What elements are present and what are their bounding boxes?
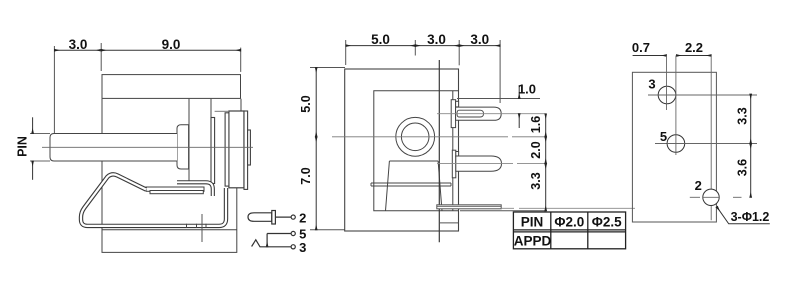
side view housing band	[102, 75, 241, 99]
side view flange plate C	[244, 111, 248, 189]
side view housing walls	[102, 99, 241, 253]
front view pin 5 centerline	[502, 207, 635, 209]
side view dimension 3.0	[54, 46, 101, 133]
svg-text:2: 2	[299, 210, 306, 225]
side view spring wire	[81, 174, 226, 225]
svg-text:5.0: 5.0	[371, 32, 390, 47]
svg-text:3.6: 3.6	[736, 159, 750, 176]
side view hidden top line	[215, 110, 229, 112]
footprint right dimension 3.6	[750, 144, 752, 198]
front view horizontal centerline	[332, 136, 546, 138]
front view left dimension 5.0	[310, 68, 345, 137]
front view dimension 3.3	[460, 164, 546, 211]
front view pin 5 bottom lug	[437, 205, 501, 209]
svg-text:1.6: 1.6	[529, 116, 543, 133]
svg-text:7.0: 7.0	[299, 167, 313, 184]
footprint top dimension 2.2	[676, 55, 711, 57]
front view pin 2 center pin	[452, 150, 501, 178]
svg-text:3.3: 3.3	[529, 172, 543, 189]
front view left dimension 7.0	[310, 137, 345, 230]
terminal symbol pin 5	[267, 231, 295, 246]
side view flange plate A	[211, 118, 215, 184]
side view center pin	[50, 134, 177, 162]
footprint callout 3-phi1.2	[717, 207, 770, 224]
front view bottom step	[440, 222, 459, 224]
front view seam band	[371, 183, 451, 186]
svg-text:2: 2	[695, 178, 702, 193]
front view dimension 2.0	[545, 137, 547, 164]
front view dimension 1.0	[457, 85, 540, 128]
svg-text:3.0: 3.0	[427, 32, 446, 47]
front view trapezoid base	[386, 161, 443, 211]
front view pin 3 centerline	[437, 113, 546, 115]
terminal symbol pin 2	[248, 211, 295, 225]
front view face rect	[345, 69, 459, 211]
footprint outline	[632, 72, 716, 222]
terminal symbol pin 3	[252, 240, 296, 249]
svg-text:9.0: 9.0	[162, 37, 181, 52]
parts table	[513, 212, 625, 249]
svg-text:3.3: 3.3	[736, 107, 750, 124]
svg-text:3: 3	[299, 240, 306, 255]
front view top dimension 3.0 a	[415, 40, 459, 65]
footprint right dimension 3.3	[750, 94, 752, 144]
side view pin thickness arrows	[30, 117, 50, 180]
side view pin axis centerline	[42, 146, 253, 148]
side view flange plate B	[225, 113, 229, 186]
svg-text:3.0: 3.0	[69, 37, 88, 52]
side view flange plate D	[248, 130, 251, 165]
svg-text:3.0: 3.0	[470, 32, 489, 47]
footprint hole 3	[648, 56, 757, 111]
side view bottom block line	[102, 229, 237, 231]
front view barrel circles	[396, 117, 435, 156]
front view dimension 1.6	[545, 114, 547, 137]
front view pin 3 top lug	[451, 100, 501, 128]
footprint hole 5	[655, 56, 757, 156]
side view dimension 9.0	[101, 43, 241, 72]
footprint top dimension 0.7	[633, 55, 667, 57]
side view crimp plate	[146, 187, 204, 194]
side view flange plate wide	[229, 111, 244, 188]
side view body column	[189, 99, 211, 181]
svg-text:PIN: PIN	[521, 214, 544, 229]
side view solder lug ticks	[187, 224, 207, 228]
side view hole centerline	[201, 214, 203, 242]
front view top dimension 3.0 b	[459, 40, 500, 103]
svg-text:3-Φ1.2: 3-Φ1.2	[731, 210, 770, 224]
svg-text:2.0: 2.0	[529, 141, 543, 158]
svg-text:5: 5	[660, 129, 667, 144]
front view rear tab line	[438, 60, 440, 242]
svg-text:5.0: 5.0	[299, 95, 313, 112]
svg-text:APPD: APPD	[514, 233, 552, 248]
footprint hole 2	[690, 56, 742, 221]
svg-text:2.2: 2.2	[685, 40, 703, 55]
front view body outline	[345, 69, 459, 231]
svg-text:1.0: 1.0	[518, 82, 536, 97]
front view pin 2 centerline	[437, 163, 546, 165]
svg-text:Φ2.5: Φ2.5	[592, 214, 622, 229]
svg-text:PIN: PIN	[16, 136, 30, 157]
svg-text:0.7: 0.7	[632, 40, 650, 55]
side view collar	[177, 125, 189, 169]
svg-text:Φ2.0: Φ2.0	[554, 214, 584, 229]
svg-text:3: 3	[648, 77, 655, 92]
front view top dimension 5.0	[346, 40, 416, 65]
side view contact plate	[177, 182, 213, 196]
